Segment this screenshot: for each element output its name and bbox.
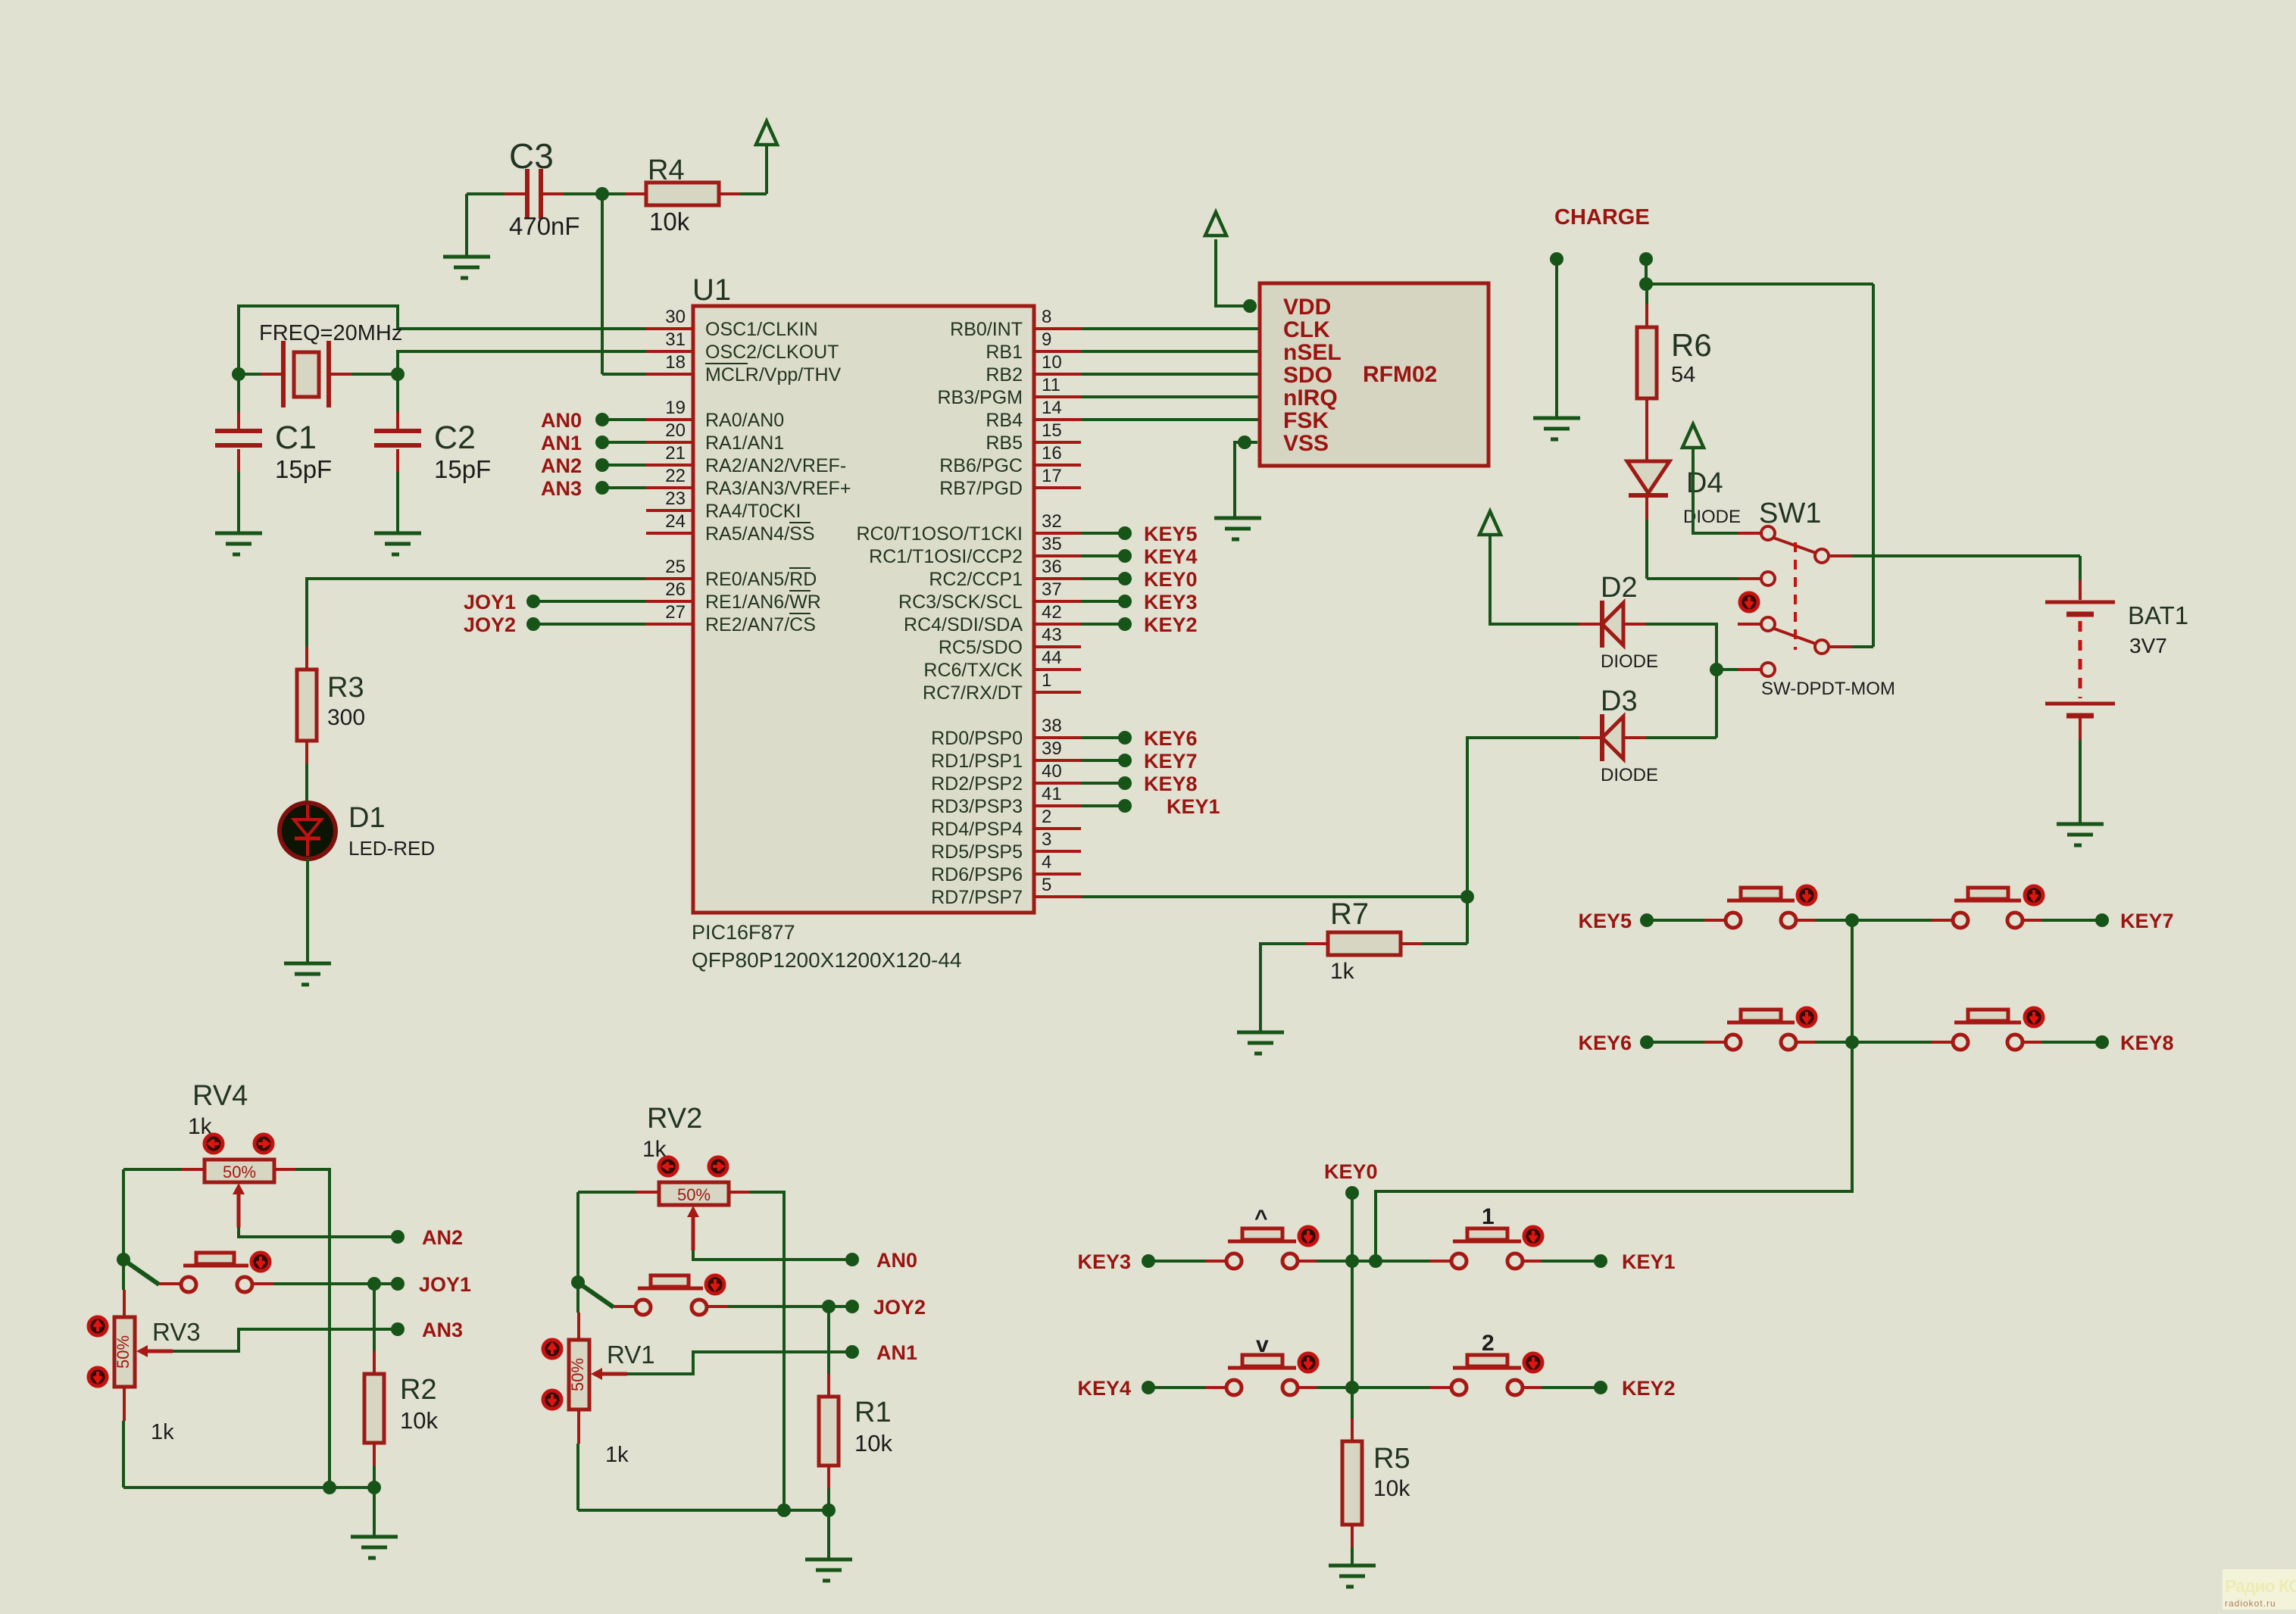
svg-text:PIC16F877: PIC16F877 bbox=[692, 921, 795, 944]
potentiometer RV2 wiper bbox=[687, 1206, 699, 1217]
resistor R1 labels bbox=[854, 1397, 892, 1456]
actuator bbox=[1798, 886, 1816, 904]
wire bbox=[1645, 259, 1648, 284]
svg-text:17: 17 bbox=[1042, 466, 1062, 486]
svg-text:35: 35 bbox=[1042, 534, 1062, 554]
svg-text:30: 30 bbox=[665, 307, 686, 327]
U1 pin 15 RB5 bbox=[986, 420, 1081, 454]
wire left rail bottom bbox=[576, 1444, 579, 1510]
node VDD pin bbox=[1243, 299, 1257, 313]
wire U1 to RFM02 bbox=[1081, 350, 1260, 353]
svg-text:5: 5 bbox=[1042, 875, 1051, 895]
push button (2) bbox=[1430, 1355, 1544, 1395]
wire AN1 to pin bbox=[602, 441, 646, 444]
svg-text:JOY1: JOY1 bbox=[419, 1273, 471, 1296]
wire U1 to RFM02 bbox=[1081, 327, 1260, 330]
node supply junction bbox=[1639, 277, 1653, 291]
potentiometer RV4 labels bbox=[188, 1080, 248, 1139]
wire power to SW1 pole A bbox=[1693, 447, 1738, 533]
svg-text:AN2: AN2 bbox=[541, 454, 582, 477]
svg-text:AN0: AN0 bbox=[876, 1249, 917, 1272]
svg-text:R6: R6 bbox=[1671, 327, 1712, 363]
node terminal AN2 bbox=[595, 458, 609, 472]
wire KEY0 down bbox=[1351, 1193, 1354, 1261]
power arrow (RFM02 VDD) bbox=[1205, 212, 1226, 236]
U1 pin 20 RA1/AN1 bbox=[646, 420, 784, 454]
U1 pin 16 RB6/PGC bbox=[939, 443, 1081, 476]
U1 pin 31 OSC2/CLKOUT bbox=[646, 329, 839, 363]
svg-text:CLK: CLK bbox=[1283, 317, 1330, 342]
wire wiper to AN3 bbox=[173, 1329, 396, 1351]
wire JOY2 to R1 bbox=[827, 1306, 830, 1374]
node D2/D3/SW junction bbox=[1710, 663, 1723, 676]
svg-text:KEY4: KEY4 bbox=[1077, 1377, 1131, 1400]
node terminal AN1 bbox=[595, 435, 609, 449]
push button (1) bbox=[1430, 1228, 1544, 1269]
svg-text:JOY2: JOY2 bbox=[464, 613, 516, 636]
wire to terminal KEY0 bbox=[1081, 577, 1125, 580]
wire R7 right lead bbox=[1422, 942, 1467, 945]
potentiometer RV4 pins bbox=[182, 1168, 295, 1171]
wire rail to pot bbox=[576, 1282, 579, 1313]
svg-text:54: 54 bbox=[1671, 363, 1695, 387]
push button (down arrow) bbox=[1205, 1355, 1319, 1395]
wire OSC1 to crystal left bbox=[239, 306, 646, 374]
node terminal KEY1 bbox=[1118, 799, 1132, 813]
node button/R junction bbox=[822, 1300, 836, 1313]
actuator SW1 bbox=[1740, 593, 1758, 611]
wire SW1 throw A to BAT1 bbox=[1852, 554, 2080, 557]
svg-text:C3: C3 bbox=[509, 136, 554, 176]
U1 pin 5 RD7/PSP7 bbox=[931, 875, 1081, 908]
svg-text:RE1/AN6/WR: RE1/AN6/WR bbox=[705, 592, 821, 613]
svg-text:32: 32 bbox=[1042, 511, 1062, 532]
node rail junction bbox=[777, 1503, 791, 1517]
svg-text:25: 25 bbox=[665, 557, 686, 577]
LED D1 LED-RED bbox=[280, 803, 336, 859]
svg-text:24: 24 bbox=[665, 511, 686, 532]
wire bbox=[2041, 919, 2102, 922]
wire CHARGE to ground bbox=[1555, 259, 1558, 418]
IC U1 part labels bbox=[692, 921, 962, 972]
wire wiper to AN1 bbox=[627, 1352, 851, 1374]
wire OSC2 to crystal right bbox=[398, 351, 646, 374]
potentiometer RV3 pins bbox=[123, 1290, 126, 1421]
svg-text:40: 40 bbox=[1042, 761, 1062, 782]
svg-text:1: 1 bbox=[1042, 670, 1051, 691]
wire rail to ground bbox=[373, 1488, 376, 1537]
wire bbox=[1317, 1260, 1432, 1263]
svg-text:AN3: AN3 bbox=[422, 1319, 463, 1341]
node terminal KEY6 bbox=[1640, 1035, 1654, 1049]
capacitor C1 labels bbox=[275, 420, 332, 483]
U1 pin 26 RE1/AN6/WR bbox=[646, 579, 821, 613]
wire RD7 to R7 node bbox=[1081, 895, 1467, 898]
node supply terminal bbox=[1639, 252, 1653, 266]
ground (D1) bbox=[284, 963, 331, 985]
svg-text:KEY2: KEY2 bbox=[1622, 1377, 1676, 1400]
wire crystal right stub bbox=[351, 373, 398, 376]
wire SW1 throw B bbox=[1852, 645, 1873, 648]
U1 pin 24 RA5/AN4/SS bbox=[646, 511, 815, 545]
wire R3 to D1 bbox=[305, 763, 308, 803]
svg-text:1: 1 bbox=[1482, 1204, 1495, 1229]
svg-text:RV3: RV3 bbox=[152, 1318, 201, 1346]
svg-text:44: 44 bbox=[1042, 648, 1062, 668]
svg-text:C2: C2 bbox=[434, 420, 476, 456]
svg-text:DIODE: DIODE bbox=[1601, 651, 1658, 672]
svg-text:JOY1: JOY1 bbox=[464, 591, 516, 613]
wire C1 to ground bbox=[237, 472, 240, 533]
node terminal KEY4 bbox=[1142, 1381, 1155, 1394]
node terminal JOY1 bbox=[526, 595, 540, 608]
node matrix column bbox=[1845, 913, 1859, 927]
svg-text:KEY6: KEY6 bbox=[1578, 1032, 1632, 1054]
push button (KEY6 row left) bbox=[1704, 1010, 1817, 1050]
wire pot end to bottom rail bbox=[750, 1192, 784, 1510]
svg-text:50%: 50% bbox=[223, 1163, 256, 1182]
svg-text:DIODE: DIODE bbox=[1601, 765, 1658, 785]
wire bottom rail bbox=[578, 1509, 829, 1512]
actuator RV2 right bbox=[709, 1157, 727, 1175]
svg-text:Радио КОТ: Радио КОТ bbox=[2225, 1576, 2296, 1596]
svg-text:D3: D3 bbox=[1601, 685, 1638, 717]
diode D3 labels bbox=[1601, 685, 1658, 785]
svg-text:D1: D1 bbox=[348, 802, 386, 834]
node terminal JOY2 bbox=[526, 617, 540, 631]
node matrix column bbox=[1845, 1035, 1859, 1049]
svg-text:KEY7: KEY7 bbox=[1144, 750, 1198, 773]
svg-text:23: 23 bbox=[665, 489, 686, 509]
potentiometer RV3 labels bbox=[151, 1318, 201, 1444]
svg-text:2: 2 bbox=[1042, 807, 1051, 827]
svg-text:RB7/PGD: RB7/PGD bbox=[939, 478, 1023, 499]
svg-text:FSK: FSK bbox=[1283, 408, 1329, 433]
svg-text:RC1/T1OSI/CCP2: RC1/T1OSI/CCP2 bbox=[869, 546, 1023, 567]
wire JOY2 to pin bbox=[533, 623, 646, 626]
node CHARGE terminal bbox=[1550, 252, 1563, 266]
wire to terminal KEY5 bbox=[1081, 532, 1125, 535]
node terminal AN2 bbox=[391, 1230, 405, 1244]
wire R7 to ground bbox=[1260, 944, 1305, 1032]
svg-text:39: 39 bbox=[1042, 738, 1062, 759]
wire D3 cathode down to R7 node bbox=[1467, 738, 1579, 897]
ground (RFM02 VSS) bbox=[1214, 518, 1261, 539]
svg-text:RC7/RX/DT: RC7/RX/DT bbox=[923, 682, 1023, 704]
wire to BAT1 bbox=[2079, 556, 2082, 580]
svg-text:RA3/AN3/VREF+: RA3/AN3/VREF+ bbox=[705, 478, 851, 499]
node terminal KEY0 bbox=[1118, 572, 1132, 585]
ground (R7) bbox=[1237, 1032, 1284, 1054]
U1 pin 30 OSC1/CLKIN bbox=[646, 307, 818, 340]
node terminal KEY7 bbox=[1118, 754, 1132, 767]
diode D2 labels bbox=[1601, 572, 1658, 672]
svg-text:RB2: RB2 bbox=[986, 364, 1023, 386]
svg-text:16: 16 bbox=[1042, 443, 1062, 464]
wire AN2 to pin bbox=[602, 464, 646, 467]
svg-text:300: 300 bbox=[327, 705, 365, 730]
wire power to D2 cathode bbox=[1490, 534, 1579, 624]
svg-text:RD0/PSP0: RD0/PSP0 bbox=[931, 728, 1023, 749]
node terminal KEY8 bbox=[2095, 1035, 2109, 1049]
node crystal left bbox=[232, 367, 245, 381]
wire U1 to RFM02 bbox=[1081, 418, 1260, 421]
svg-text:RB6/PGC: RB6/PGC bbox=[939, 455, 1023, 476]
svg-text:31: 31 bbox=[665, 329, 686, 350]
node terminal KEY3 bbox=[1118, 595, 1132, 608]
wire bbox=[1317, 1386, 1432, 1389]
wire to C1 bbox=[237, 374, 240, 412]
wire matrix column to KEY0 row bbox=[1376, 1042, 1852, 1261]
U1 pin 32 RC0/T1OSO/T1CKI bbox=[857, 511, 1082, 545]
svg-text:OSC2/CLKOUT: OSC2/CLKOUT bbox=[705, 342, 839, 363]
potentiometer RV3 wiper bbox=[136, 1345, 148, 1357]
U1 pin 42 RC4/SDI/SDA bbox=[904, 602, 1081, 635]
svg-text:42: 42 bbox=[1042, 602, 1062, 623]
node R7/D3 junction bbox=[1460, 890, 1474, 904]
diode D2 bbox=[1579, 601, 1646, 648]
resistor R6 body bbox=[1637, 327, 1657, 398]
wire junction to SW1 pole D bbox=[1717, 668, 1738, 671]
power arrow (SW1 pole A) bbox=[1682, 424, 1704, 448]
wire to R5 bbox=[1351, 1388, 1354, 1419]
capacitor C2 body bbox=[374, 431, 421, 445]
push button (up arrow) bbox=[1205, 1228, 1319, 1269]
actuator RV4 right bbox=[255, 1135, 273, 1153]
resistor R4 body bbox=[646, 183, 719, 205]
svg-text:RC2/CCP1: RC2/CCP1 bbox=[929, 569, 1023, 590]
svg-text:KEY4: KEY4 bbox=[1144, 545, 1198, 568]
svg-text:RD2/PSP2: RD2/PSP2 bbox=[931, 773, 1023, 795]
svg-text:R7: R7 bbox=[1330, 898, 1369, 931]
svg-text:QFP80P1200X1200X120-44: QFP80P1200X1200X120-44 bbox=[692, 948, 962, 972]
svg-text:CHARGE: CHARGE bbox=[1554, 205, 1650, 229]
svg-text:KEY3: KEY3 bbox=[1144, 591, 1198, 613]
wire D2 anode to junction bbox=[1646, 624, 1717, 670]
wire bbox=[123, 1168, 182, 1171]
svg-text:RD1/PSP1: RD1/PSP1 bbox=[931, 751, 1023, 772]
svg-text:MCLR/Vpp/THV: MCLR/Vpp/THV bbox=[705, 364, 842, 386]
U1 pin 36 RC2/CCP1 bbox=[929, 557, 1081, 590]
svg-text:4: 4 bbox=[1042, 852, 1051, 873]
actuator bbox=[1299, 1353, 1317, 1372]
node button pole bbox=[571, 1275, 585, 1289]
ground (C1) bbox=[215, 533, 262, 554]
power arrow (R4 pull-up) bbox=[756, 121, 777, 145]
svg-text:RV4: RV4 bbox=[192, 1080, 248, 1112]
svg-text:RC0/T1OSO/T1CKI: RC0/T1OSO/T1CKI bbox=[857, 523, 1023, 545]
svg-text:15: 15 bbox=[1042, 420, 1062, 441]
wire R4 to power bbox=[740, 192, 767, 195]
wire R5 to ground bbox=[1351, 1547, 1354, 1566]
ground (joystick block) bbox=[351, 1537, 398, 1558]
actuator RV4 left bbox=[205, 1135, 223, 1153]
svg-text:10k: 10k bbox=[1373, 1476, 1410, 1501]
node terminal KEY0 bbox=[1345, 1186, 1359, 1200]
svg-text:10: 10 bbox=[1042, 352, 1062, 373]
svg-text:14: 14 bbox=[1042, 398, 1062, 418]
U1 pin 21 RA2/AN2/VREF- bbox=[646, 443, 846, 476]
U1 pin 9 RB1 bbox=[986, 329, 1081, 363]
wire D4 to SW1 bbox=[1645, 520, 1648, 579]
node rail/ground junction bbox=[822, 1503, 836, 1517]
svg-text:VDD: VDD bbox=[1283, 295, 1331, 320]
svg-text:AN2: AN2 bbox=[422, 1226, 463, 1249]
wire to D3 anode bbox=[1646, 736, 1717, 739]
svg-text:50%: 50% bbox=[677, 1185, 711, 1204]
actuator RV3 down bbox=[89, 1368, 107, 1386]
wire C2 to ground bbox=[396, 472, 399, 533]
wire bbox=[1148, 1386, 1207, 1389]
resistor R4 labels bbox=[648, 155, 690, 236]
U1 pin 41 RD3/PSP3 bbox=[931, 784, 1081, 817]
IC U1 PIC16F877 body bbox=[693, 306, 1034, 913]
power arrow (D2) bbox=[1479, 511, 1501, 535]
U1 pin 38 RD0/PSP0 bbox=[931, 716, 1081, 749]
U1 pin 22 RA3/AN3/VREF+ bbox=[646, 466, 851, 499]
wire bbox=[1815, 1041, 1934, 1044]
svg-text:AN0: AN0 bbox=[541, 409, 582, 432]
svg-text:RB4: RB4 bbox=[986, 410, 1023, 431]
actuator bbox=[2025, 886, 2043, 904]
potentiometer RV2 labels bbox=[642, 1103, 702, 1162]
actuator button bbox=[251, 1253, 270, 1271]
node matrix junction bbox=[1369, 1254, 1382, 1268]
push button (joystick RV2) bbox=[614, 1275, 728, 1315]
svg-text:radiokot.ru: radiokot.ru bbox=[2225, 1598, 2276, 1609]
wire bbox=[827, 1488, 830, 1510]
wire D1 to ground bbox=[306, 859, 309, 963]
wire BAT1 to ground bbox=[2079, 740, 2082, 824]
actuator RV1 down bbox=[543, 1391, 561, 1409]
U1 pin 44 RC6/TX/CK bbox=[923, 648, 1081, 681]
resistor R7 labels bbox=[1330, 898, 1369, 984]
svg-text:^: ^ bbox=[1254, 1206, 1268, 1231]
wire wiper to AN2 bbox=[239, 1228, 396, 1237]
svg-text:SDO: SDO bbox=[1283, 363, 1332, 388]
wire AN3 to pin bbox=[602, 486, 646, 489]
svg-text:KEY1: KEY1 bbox=[1622, 1250, 1676, 1273]
wire bbox=[1542, 1386, 1601, 1389]
svg-text:VSS: VSS bbox=[1283, 431, 1329, 456]
node crystal right bbox=[391, 367, 405, 381]
switch SW1 labels bbox=[1759, 498, 1895, 699]
wire to terminal KEY3 bbox=[1081, 600, 1125, 603]
wire rail to pot bbox=[122, 1260, 125, 1290]
svg-text:nSEL: nSEL bbox=[1283, 340, 1342, 365]
capacitor C3 labels bbox=[509, 136, 580, 240]
actuator button bbox=[706, 1275, 724, 1294]
node terminal KEY6 bbox=[1118, 731, 1132, 745]
svg-text:470nF: 470nF bbox=[509, 212, 580, 240]
capacitor C1 pins bbox=[237, 412, 240, 472]
U1 pin 1 RC7/RX/DT bbox=[923, 670, 1081, 704]
svg-text:RV1: RV1 bbox=[607, 1341, 655, 1369]
wire VSS to ground bbox=[1235, 442, 1257, 518]
node terminal JOY1 bbox=[391, 1277, 405, 1291]
svg-text:LED-RED: LED-RED bbox=[348, 837, 435, 860]
resistor R3 labels bbox=[327, 672, 365, 730]
svg-text:26: 26 bbox=[665, 579, 686, 600]
wire pot end to bottom rail bbox=[295, 1169, 330, 1488]
node terminal AN1 bbox=[845, 1345, 859, 1359]
wire to terminal KEY8 bbox=[1081, 782, 1125, 785]
wire bbox=[1647, 919, 1707, 922]
U1 pin 8 RB0/INT bbox=[950, 307, 1081, 340]
U1 pin 39 RD1/PSP1 bbox=[931, 738, 1081, 772]
svg-text:KEY0: KEY0 bbox=[1144, 568, 1198, 591]
ground (C3) bbox=[443, 257, 490, 278]
node KEY0 column junction bbox=[1345, 1254, 1359, 1268]
svg-text:RB5: RB5 bbox=[986, 432, 1023, 454]
svg-text:AN1: AN1 bbox=[541, 432, 582, 454]
svg-text:27: 27 bbox=[665, 602, 686, 623]
node terminal KEY5 bbox=[1640, 913, 1654, 927]
svg-text:37: 37 bbox=[1042, 579, 1062, 600]
svg-text:JOY2: JOY2 bbox=[873, 1296, 926, 1319]
svg-text:1k: 1k bbox=[605, 1443, 629, 1467]
wire supply to switch bbox=[1646, 283, 1873, 286]
svg-text:D2: D2 bbox=[1601, 572, 1638, 604]
U1 pin 14 RB4 bbox=[986, 398, 1081, 431]
svg-text:SW-DPDT-MOM: SW-DPDT-MOM bbox=[1761, 679, 1895, 699]
wire left rail bottom bbox=[122, 1421, 125, 1488]
wire bbox=[1815, 919, 1934, 922]
potentiometer RV1 pins bbox=[577, 1313, 580, 1444]
node terminal KEY2 bbox=[1594, 1381, 1607, 1394]
actuator bbox=[2025, 1008, 2043, 1026]
wire pin25 to R3 bbox=[307, 579, 646, 647]
U1 pin 10 RB2 bbox=[986, 352, 1081, 386]
wire to C2 bbox=[396, 374, 399, 412]
wire node to R4 bbox=[602, 192, 625, 195]
wire U1 to RFM02 bbox=[1081, 395, 1260, 398]
actuator RV3 up bbox=[89, 1317, 107, 1335]
svg-text:KEY0: KEY0 bbox=[1324, 1160, 1378, 1183]
wire down to SW1 throw bbox=[1872, 284, 1875, 647]
svg-text:50%: 50% bbox=[568, 1358, 587, 1391]
module RFM02 body bbox=[1260, 283, 1488, 466]
node rail junction bbox=[323, 1481, 336, 1494]
node terminal AN3 bbox=[391, 1322, 405, 1336]
actuator bbox=[1299, 1227, 1317, 1245]
svg-text:RA4/T0CKI: RA4/T0CKI bbox=[705, 501, 801, 522]
svg-text:RD7/PSP7: RD7/PSP7 bbox=[931, 887, 1023, 908]
potentiometer RV4 wiper bbox=[233, 1183, 245, 1194]
capacitor C2 pins bbox=[396, 412, 399, 472]
battery BAT1 labels bbox=[2128, 601, 2188, 657]
svg-text:10k: 10k bbox=[649, 208, 690, 236]
svg-text:RD6/PSP6: RD6/PSP6 bbox=[931, 864, 1023, 885]
actuator RV2 left bbox=[659, 1157, 677, 1175]
U1 pin 11 RB3/PGM bbox=[937, 375, 1081, 408]
svg-text:KEY8: KEY8 bbox=[1144, 773, 1198, 795]
wire U1 to RFM02 bbox=[1081, 373, 1260, 376]
svg-text:RC4/SDI/SDA: RC4/SDI/SDA bbox=[904, 614, 1023, 635]
svg-text:RD5/PSP5: RD5/PSP5 bbox=[931, 841, 1023, 863]
resistor R6 labels bbox=[1671, 327, 1712, 387]
wire button to JOY2 bbox=[728, 1305, 851, 1308]
potentiometer RV3 body bbox=[114, 1317, 135, 1387]
actuator bbox=[1524, 1227, 1542, 1245]
svg-text:KEY2: KEY2 bbox=[1144, 613, 1198, 636]
wire matrix column bbox=[1851, 920, 1854, 1042]
svg-text:KEY5: KEY5 bbox=[1144, 523, 1198, 545]
push button (joystick RV4) bbox=[159, 1253, 273, 1292]
wire C3 left lead bbox=[467, 192, 504, 195]
U1 pin 37 RC3/SCK/SCL bbox=[898, 579, 1081, 613]
wire bbox=[578, 1191, 636, 1194]
